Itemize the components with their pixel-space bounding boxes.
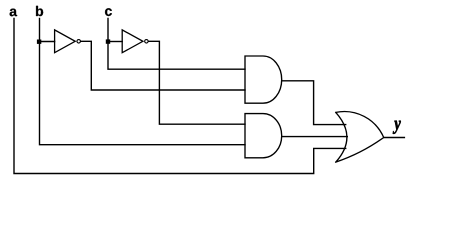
- OR gate U5: [336, 112, 384, 163]
- output label y: [393, 121, 401, 134]
- AND gate U3 (top): [245, 56, 282, 103]
- wire from U2 output down to AND2 upper input: [149, 41, 245, 124]
- wire b tap to inverter U1 input: [40, 41, 55, 43]
- wire output y from OR gate: [384, 137, 405, 139]
- junction on c at inverter tap: [106, 39, 110, 43]
- wire from U4 output to OR gate middle input: [282, 136, 348, 138]
- input label a: [10, 9, 17, 17]
- wire b: input b down to AND2 lower input: [40, 19, 246, 145]
- wire c: input c down to AND1 upper input: [108, 19, 245, 70]
- wire a: input a down, along bottom, up into OR gate bottom input: [14, 19, 346, 174]
- input label b: [36, 6, 43, 16]
- input label c: [105, 8, 112, 16]
- junction on b at inverter tap: [37, 40, 41, 44]
- wire from U3 output to OR gate top input: [282, 81, 346, 125]
- wire from U1 output down to AND1 lower input: [81, 41, 245, 90]
- inverter U1 (NOT b): [55, 30, 81, 53]
- wire c tap to inverter U2 input: [108, 41, 122, 43]
- inverter U2 (NOT c): [122, 30, 148, 53]
- AND gate U4 (bottom): [245, 114, 282, 158]
